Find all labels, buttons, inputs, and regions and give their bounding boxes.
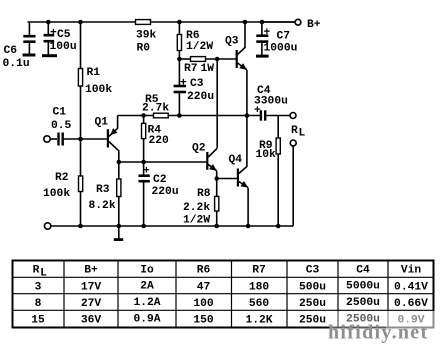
svg-text:R8: R8 xyxy=(197,188,211,200)
svg-text:2.7k: 2.7k xyxy=(142,103,169,115)
svg-text:R7: R7 xyxy=(184,63,198,75)
capacitor C4 xyxy=(261,110,290,120)
svg-text:L: L xyxy=(40,268,47,280)
svg-text:1.2K: 1.2K xyxy=(245,315,272,327)
svg-text:560: 560 xyxy=(249,298,270,310)
svg-text:5000u: 5000u xyxy=(346,281,380,293)
svg-text:2A: 2A xyxy=(140,281,154,293)
svg-text:R: R xyxy=(33,265,40,277)
svg-text:27V: 27V xyxy=(81,298,102,310)
terminal RL bottom xyxy=(290,140,296,146)
table row RL=15 xyxy=(31,314,425,327)
resistor R8 xyxy=(215,179,219,227)
svg-text:17V: 17V xyxy=(81,282,102,294)
capacitor C2 xyxy=(139,176,150,226)
ground (C6) xyxy=(23,54,36,57)
svg-text:R: R xyxy=(291,125,298,137)
transistor Q4 xyxy=(237,116,248,227)
svg-text:220u: 220u xyxy=(187,91,214,103)
svg-text:C5: C5 xyxy=(57,29,71,41)
svg-text:1.2A: 1.2A xyxy=(133,297,160,309)
resistor R4 xyxy=(142,116,146,176)
terminal B+ xyxy=(295,19,301,25)
svg-text:500u: 500u xyxy=(299,282,326,294)
svg-text:L: L xyxy=(299,128,306,140)
capacitor C3 xyxy=(174,59,187,116)
svg-text:+: + xyxy=(180,78,187,90)
capacitor C5 xyxy=(44,22,55,55)
svg-text:C6: C6 xyxy=(4,45,18,57)
svg-text:150: 150 xyxy=(193,315,214,327)
resistor R0 39k xyxy=(136,20,151,25)
terminal RL top xyxy=(290,113,296,119)
node Q2 emitter junction xyxy=(214,176,219,181)
svg-text:Q3: Q3 xyxy=(225,36,239,48)
svg-text:Q4: Q4 xyxy=(229,154,243,166)
svg-text:15: 15 xyxy=(31,315,45,327)
transistor Q2 xyxy=(206,148,217,178)
table row RL=8 xyxy=(35,297,429,310)
svg-text:100u: 100u xyxy=(50,41,77,53)
svg-text:R0: R0 xyxy=(137,43,151,55)
svg-text:+: + xyxy=(264,27,271,39)
svg-text:2500u: 2500u xyxy=(346,297,380,309)
svg-text:1/2W: 1/2W xyxy=(186,41,213,53)
resistor R2 xyxy=(79,139,83,226)
svg-text:+: + xyxy=(50,28,57,40)
svg-text:0.5: 0.5 xyxy=(51,120,72,132)
transistor Q3 xyxy=(236,22,247,116)
wire Q2 collector riser xyxy=(216,59,218,148)
wire top supply rail xyxy=(28,21,296,23)
svg-text:100k: 100k xyxy=(85,84,112,96)
svg-text:250u: 250u xyxy=(299,315,326,327)
resistor R5 xyxy=(154,113,169,118)
table parts grid xyxy=(13,261,434,328)
svg-text:36V: 36V xyxy=(81,315,102,327)
svg-text:C1: C1 xyxy=(53,107,67,119)
svg-text:1000u: 1000u xyxy=(264,43,298,55)
svg-text:3: 3 xyxy=(35,282,42,294)
wire bottom rail xyxy=(51,225,293,227)
svg-text:R2: R2 xyxy=(55,172,69,184)
ground (C7) xyxy=(256,55,269,58)
svg-text:B+: B+ xyxy=(307,19,321,31)
table row RL=3 xyxy=(35,281,429,294)
svg-text:R6: R6 xyxy=(186,30,200,42)
table header row xyxy=(33,265,422,280)
node input bias junction xyxy=(78,137,83,142)
svg-text:3300u: 3300u xyxy=(254,96,288,108)
node output rail junctions xyxy=(141,113,146,118)
svg-text:100: 100 xyxy=(193,298,214,310)
svg-text:R7: R7 xyxy=(252,265,266,277)
node top rail junctions xyxy=(46,20,281,229)
svg-text:0.41V: 0.41V xyxy=(394,282,428,294)
svg-text:Q1: Q1 xyxy=(95,117,109,129)
svg-text:Vin: Vin xyxy=(401,265,422,277)
wire Q2 emitter to Q4 base xyxy=(217,178,237,180)
svg-text:250u: 250u xyxy=(299,298,326,310)
resistor R6 xyxy=(177,22,181,59)
svg-text:C7: C7 xyxy=(277,31,291,43)
terminal input xyxy=(44,136,50,142)
svg-text:+: + xyxy=(143,166,150,178)
transistor Q1 xyxy=(107,116,119,163)
wire R7 to Q3 base xyxy=(206,58,236,60)
svg-text:100k: 100k xyxy=(43,188,70,200)
wire output rail to C4 xyxy=(168,115,260,117)
svg-text:C3: C3 xyxy=(190,78,204,90)
svg-text:R6: R6 xyxy=(197,265,211,277)
wire Q1 collector to Q2 base xyxy=(119,161,206,163)
node R6/R7/C3 junctions xyxy=(177,57,182,62)
svg-text:C2: C2 xyxy=(153,174,167,186)
svg-text:B+: B+ xyxy=(84,265,98,277)
wire node R6/R7/C3 xyxy=(179,58,190,60)
ground (C5) xyxy=(42,54,57,57)
svg-text:220u: 220u xyxy=(152,186,179,198)
capacitor C6 xyxy=(23,22,35,54)
ground (main) xyxy=(114,226,123,240)
wire RL return xyxy=(292,146,294,226)
svg-text:180: 180 xyxy=(249,282,270,294)
wire to B+ terminal xyxy=(262,21,295,23)
resistor R1 xyxy=(78,22,82,139)
terminal input ground xyxy=(44,223,50,229)
svg-text:0.9A: 0.9A xyxy=(133,314,160,326)
capacitor C1 xyxy=(50,133,107,146)
svg-text:0.1u: 0.1u xyxy=(3,58,30,70)
capacitor C7 xyxy=(256,22,268,55)
svg-text:2.2k: 2.2k xyxy=(183,202,210,214)
svg-text:R3: R3 xyxy=(96,184,110,196)
svg-text:Io: Io xyxy=(140,265,154,277)
svg-text:Q2: Q2 xyxy=(192,142,206,154)
svg-text:220: 220 xyxy=(149,135,170,147)
svg-text:0.66V: 0.66V xyxy=(394,298,428,310)
svg-text:hifidiy.net: hifidiy.net xyxy=(328,322,428,344)
svg-text:8.2k: 8.2k xyxy=(89,200,116,212)
svg-text:R1: R1 xyxy=(87,67,101,79)
svg-text:C4: C4 xyxy=(356,265,370,277)
watermark fade overlay xyxy=(330,311,441,348)
resistor R7 xyxy=(191,57,206,62)
node bottom rail junctions xyxy=(78,224,83,229)
svg-text:C3: C3 xyxy=(306,265,320,277)
svg-text:47: 47 xyxy=(197,282,211,294)
svg-text:1/2W: 1/2W xyxy=(183,215,210,227)
svg-text:39k: 39k xyxy=(136,30,157,42)
svg-text:8: 8 xyxy=(35,298,42,310)
resistor R9 xyxy=(276,116,280,227)
svg-text:1W: 1W xyxy=(201,63,215,75)
node Q1 collector junctions xyxy=(117,160,122,165)
svg-text:10k: 10k xyxy=(256,149,277,161)
resistor R3 xyxy=(117,162,121,226)
wire output rail xyxy=(118,115,154,117)
